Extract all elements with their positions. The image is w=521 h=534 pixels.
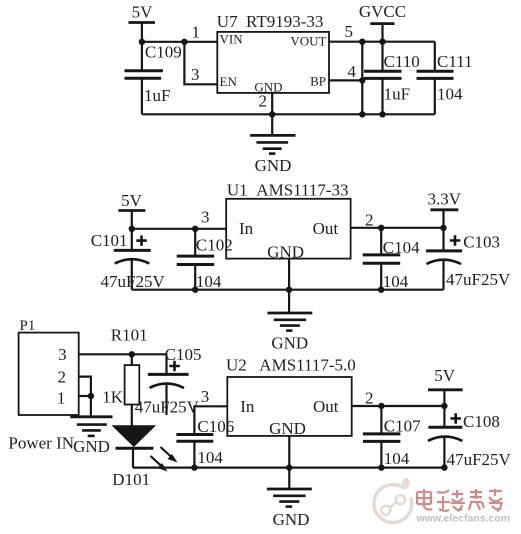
junction bottom left branch	[359, 111, 365, 117]
junction GND stem	[269, 111, 275, 117]
svg-text:RT9193-33: RT9193-33	[246, 12, 323, 31]
watermark logo elecfans	[374, 480, 412, 523]
svg-text:47uF25V: 47uF25V	[101, 272, 166, 291]
ground GND (bottom section)	[267, 489, 312, 529]
capacitor C111	[417, 71, 454, 114]
capacitor C109	[125, 42, 163, 115]
svg-text:1K: 1K	[102, 388, 124, 407]
svg-text:C101: C101	[91, 231, 128, 250]
svg-text:C111: C111	[437, 52, 473, 71]
capacitor C101 (electrolytic)	[114, 229, 151, 290]
watermark text dianzifashaoyou	[417, 489, 503, 511]
junction U1 GND	[286, 287, 292, 293]
svg-text:GVCC: GVCC	[359, 2, 406, 21]
svg-text:R101: R101	[111, 326, 148, 345]
wire 5V to VIN pin 1	[141, 41, 218, 43]
capacitor C103 (electrolytic)	[426, 228, 462, 290]
svg-text:3: 3	[58, 345, 67, 364]
power 5V (top left)	[129, 2, 156, 41]
ground GND (top section)	[250, 135, 295, 175]
svg-text:104: 104	[384, 449, 410, 468]
svg-text:Out: Out	[313, 219, 339, 238]
ground GND (middle section)	[267, 313, 312, 353]
wire VOUT pin 5 to GVCC rail	[329, 41, 435, 43]
wire P1 pin 3 to R101 / C105	[79, 353, 167, 355]
svg-text:104: 104	[196, 272, 222, 291]
svg-text:47uF25V: 47uF25V	[446, 270, 511, 289]
svg-text:104: 104	[197, 448, 223, 467]
wire bottom rail (middle section)	[132, 289, 444, 291]
wire Out pin 2 to 5V	[352, 405, 445, 407]
svg-text:Power IN: Power IN	[8, 433, 74, 452]
svg-text:C109: C109	[145, 43, 182, 62]
svg-text:D101: D101	[112, 470, 150, 489]
svg-text:GND: GND	[73, 437, 110, 456]
wire U2 GND stem	[288, 436, 290, 489]
svg-text:104: 104	[437, 84, 463, 103]
svg-text:P1: P1	[20, 318, 36, 334]
svg-text:1: 1	[192, 23, 201, 42]
capacitor C108 (electrolytic)	[428, 406, 463, 468]
D101 arrow 2	[151, 456, 168, 472]
junction C104	[378, 225, 384, 231]
svg-text:3: 3	[201, 208, 210, 227]
svg-text:1uF: 1uF	[144, 86, 170, 105]
svg-text:47uF25V: 47uF25V	[135, 397, 200, 416]
junction C110 bottom	[379, 111, 385, 117]
wire P1 pin 1	[79, 395, 91, 397]
power GVCC	[359, 2, 406, 42]
svg-text:U7: U7	[217, 12, 238, 31]
junction VOUT	[359, 39, 365, 45]
C108 polarity +	[451, 413, 462, 424]
svg-text:C108: C108	[463, 412, 500, 431]
svg-text:3: 3	[191, 65, 200, 84]
junction C107 bottom	[378, 464, 384, 470]
wire to C111	[434, 42, 436, 71]
svg-text:C110: C110	[384, 52, 420, 71]
svg-text:3.3V: 3.3V	[428, 190, 462, 209]
svg-text:GND: GND	[269, 419, 306, 438]
wire P1 pin 2	[79, 377, 91, 417]
svg-text:5V: 5V	[434, 366, 456, 385]
wire U7 GND pin 2 stem	[271, 93, 273, 135]
power 5V (output)	[428, 366, 463, 406]
junction pin1/pin2	[88, 393, 94, 399]
svg-text:5V: 5V	[121, 191, 143, 210]
capacitor C106	[176, 435, 213, 468]
connector P1	[19, 333, 79, 415]
svg-text:Out: Out	[313, 397, 339, 416]
wire U1 GND stem	[288, 259, 290, 313]
svg-text:www.elecfans.com: www.elecfans.com	[416, 513, 511, 525]
svg-text:1: 1	[57, 388, 66, 407]
svg-text:2: 2	[365, 211, 374, 230]
power 3.3V	[428, 190, 462, 228]
svg-text:104: 104	[383, 272, 409, 291]
svg-text:1uF: 1uF	[384, 84, 410, 103]
svg-text:2: 2	[259, 91, 268, 110]
svg-text:2: 2	[365, 389, 374, 408]
svg-text:GND: GND	[273, 510, 310, 529]
svg-text:5V: 5V	[132, 2, 154, 21]
svg-text:GND: GND	[267, 242, 304, 261]
IC U2 AMS1117-5.0	[227, 377, 351, 436]
svg-text:EN: EN	[220, 74, 238, 89]
svg-text:GND: GND	[271, 334, 308, 353]
svg-text:In: In	[240, 397, 255, 416]
junction C102	[192, 226, 198, 232]
LED D101	[112, 425, 157, 468]
svg-text:AMS1117-5.0: AMS1117-5.0	[259, 356, 356, 375]
wire vertical VOUT branch	[361, 42, 363, 115]
wire EN branch to pin 3	[184, 42, 217, 85]
svg-text:BP: BP	[310, 74, 326, 89]
svg-text:5: 5	[345, 22, 354, 41]
D101 arrow 1	[161, 447, 178, 463]
junction 5V / C109	[139, 39, 145, 45]
svg-text:GND: GND	[255, 156, 292, 175]
junction EN branch	[181, 39, 187, 45]
svg-text:C102: C102	[196, 235, 233, 254]
capacitor C105 (electrolytic)	[148, 354, 189, 415]
svg-text:U1: U1	[227, 181, 248, 200]
svg-text:AMS1117-33: AMS1117-33	[256, 181, 348, 200]
capacitor C107	[363, 406, 401, 468]
wire bottom rail (bottom section)	[133, 467, 444, 469]
junction C106 bottom	[191, 464, 197, 470]
junction R101 top	[129, 351, 135, 357]
junction C108 bottom	[441, 464, 447, 470]
svg-text:2: 2	[58, 367, 67, 386]
resistor R101	[125, 354, 140, 426]
C101 polarity +	[136, 235, 147, 246]
power 5V (middle)	[118, 191, 145, 229]
svg-text:4: 4	[348, 62, 357, 81]
IC U7 RT9193-33	[217, 32, 329, 93]
wire Out pin 2 to 3.3V	[351, 227, 444, 229]
svg-text:U2: U2	[226, 356, 247, 375]
junction BP	[359, 77, 365, 83]
svg-text:3: 3	[201, 387, 210, 406]
C103 polarity +	[450, 235, 461, 246]
junction C107	[378, 403, 384, 409]
svg-text:C107: C107	[384, 416, 421, 435]
junction 5V / C108	[441, 403, 447, 409]
junction GVCC / C110	[379, 39, 385, 45]
wire bottom rail (top section)	[142, 113, 435, 115]
capacitor C110	[364, 42, 402, 115]
svg-text:C104: C104	[383, 238, 420, 257]
svg-text:In: In	[239, 219, 254, 238]
junction C104 bottom	[378, 287, 384, 293]
junction 3.3V / C103	[440, 225, 446, 231]
junction C102 bottom	[192, 287, 198, 293]
svg-text:VIN: VIN	[220, 32, 244, 47]
svg-text:C105: C105	[165, 345, 202, 364]
svg-text:VOUT: VOUT	[290, 34, 326, 49]
svg-text:C103: C103	[463, 232, 500, 251]
wire U2 pin 3 / C106 branch	[194, 406, 227, 434]
capacitor C102	[177, 229, 215, 290]
junction 5V / C101	[129, 226, 135, 232]
wire 5V to In pin 3	[132, 228, 226, 230]
svg-text:C106: C106	[197, 417, 234, 436]
junction U2 GND	[286, 464, 292, 470]
capacitor C104	[363, 228, 401, 290]
ground GND (P1)	[70, 417, 112, 456]
IC U1 AMS1117-33	[226, 199, 350, 259]
svg-text:47uF25V: 47uF25V	[447, 450, 512, 469]
wire BP pin 4	[329, 79, 362, 81]
C105 polarity +	[169, 361, 180, 372]
